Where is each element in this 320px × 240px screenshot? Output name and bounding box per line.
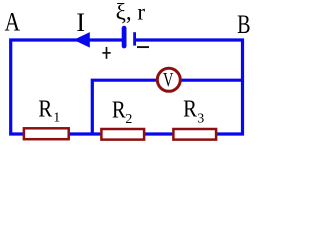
svg-text:ξ, r: ξ, r — [116, 0, 146, 24]
svg-text:R: R — [38, 96, 52, 122]
voltmeter V (circle) — [157, 68, 180, 91]
svg-text:A: A — [5, 8, 21, 37]
resistor R3 box — [173, 129, 216, 140]
svg-text:R: R — [183, 96, 197, 122]
svg-text:R: R — [112, 98, 126, 124]
wire voltmeter branch: junction riser and middle run — [92, 80, 242, 134]
polarity label + — [102, 47, 110, 59]
resistor R1 box — [24, 128, 69, 139]
svg-text:2: 2 — [125, 112, 132, 127]
battery cell: positive plate (long) — [122, 28, 127, 46]
svg-text:1: 1 — [53, 111, 60, 126]
svg-text:B: B — [237, 10, 250, 39]
svg-text:V: V — [163, 69, 174, 91]
wire outer loop: A-left-bottom-right-B — [11, 40, 243, 134]
current arrow I on top wire — [74, 32, 90, 48]
battery cell: negative plate (short) — [133, 32, 136, 45]
resistor R2 box — [101, 129, 144, 140]
svg-text:I: I — [76, 8, 85, 37]
svg-text:3: 3 — [197, 111, 204, 126]
polarity label - — [137, 46, 149, 48]
